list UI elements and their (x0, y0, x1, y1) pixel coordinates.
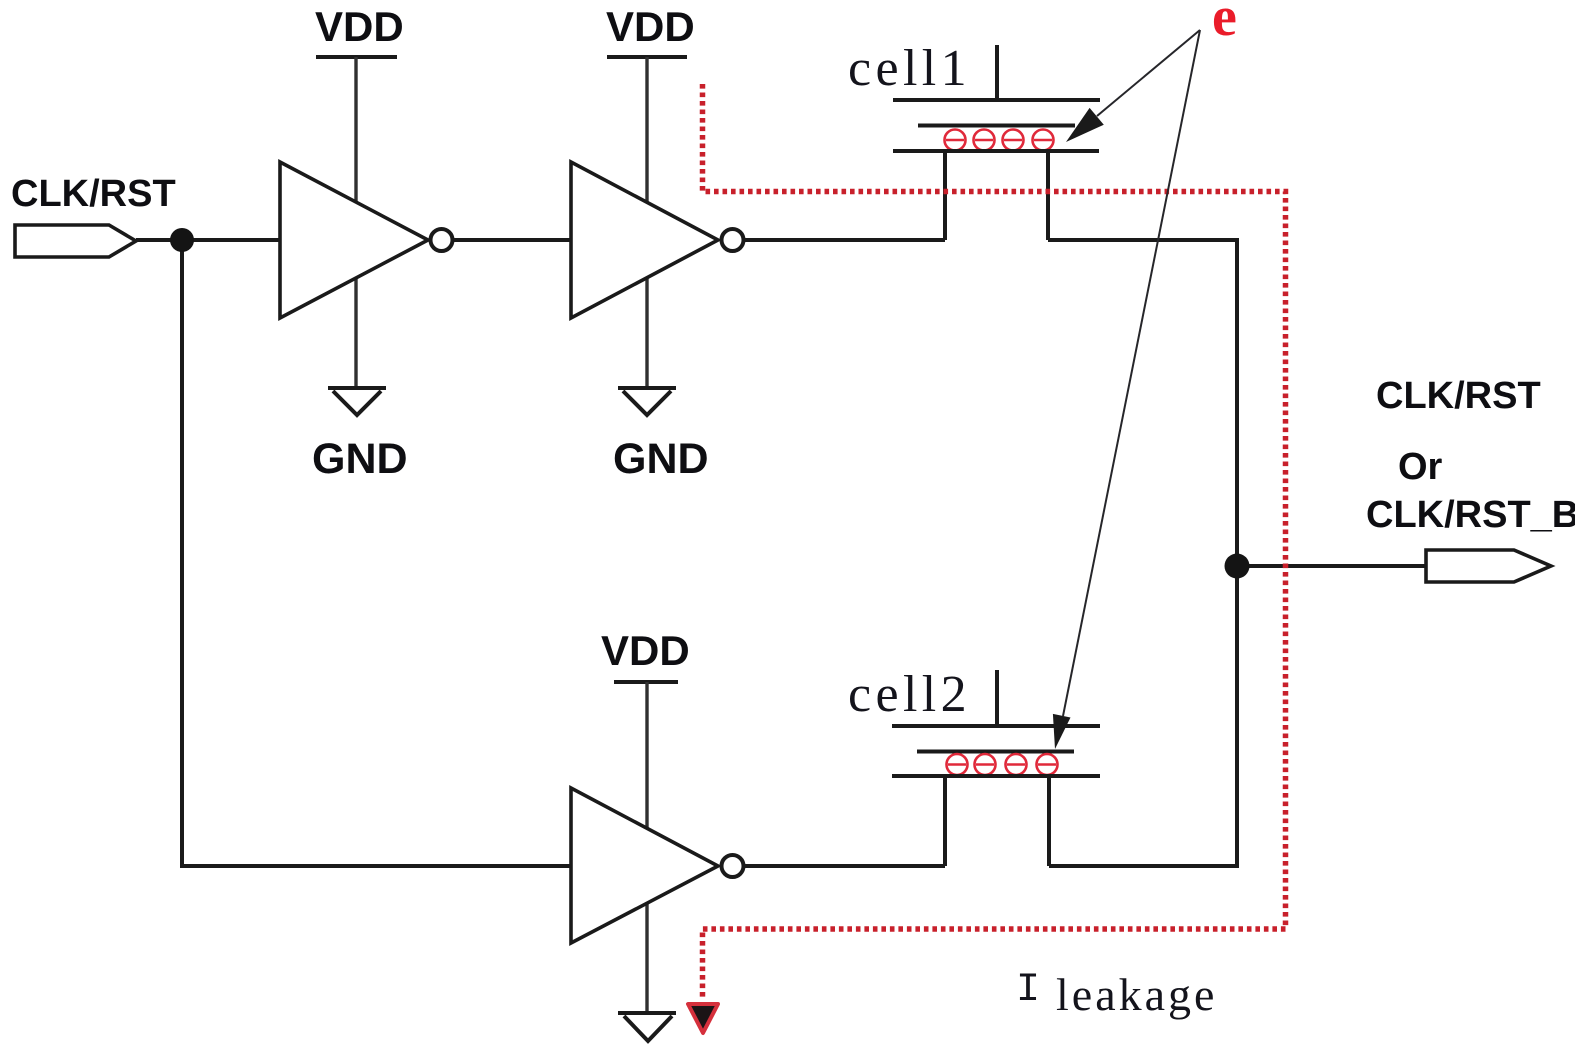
svg-text:e: e (1212, 0, 1237, 48)
wire node B to output port (1237, 564, 1427, 568)
svg-text:CLK/RST: CLK/RST (1376, 375, 1541, 417)
wire U2 output to cell1 source (743, 238, 945, 242)
ground G3 (618, 1013, 676, 1041)
wire bottom branch to inverter U3 (180, 864, 573, 868)
bubble U1 (431, 229, 453, 251)
wire U1 output to U2 input (452, 238, 573, 242)
svg-text:cell2: cell2 (848, 666, 971, 723)
node A junction dot (170, 228, 194, 252)
wire cell1 drain to right bus (1048, 238, 1239, 242)
svg-text:CLK/RST: CLK/RST (11, 173, 176, 215)
wire node A vertical to bottom branch (180, 240, 184, 868)
svg-text:cell1: cell1 (848, 40, 971, 97)
bubble U3 (722, 855, 744, 877)
cell2 floating gate plate (917, 750, 1074, 754)
ground G2 (618, 388, 676, 415)
wire input to inverter U1 (136, 238, 282, 242)
svg-text:Or: Or (1398, 446, 1443, 488)
VDD rail U1 (316, 55, 397, 59)
inverter U3 (571, 788, 718, 943)
cell2 drain stub (1047, 776, 1051, 866)
cell2 control gate plate (892, 724, 1100, 728)
cell1 drain stub (1046, 151, 1050, 240)
wire cell2 drain to right bus (1049, 864, 1239, 868)
cell2 gate lead (995, 670, 999, 726)
svg-text:VDD: VDD (315, 3, 404, 50)
cell1 control gate plate (893, 98, 1100, 102)
output port CLK/RST or CLK/RST_B (1426, 550, 1551, 582)
inverter U2 (571, 162, 718, 318)
electron arrow to cell1 (1097, 30, 1200, 116)
bubble U2 (722, 229, 744, 251)
cell1 trapped electrons (945, 130, 1054, 151)
electron arrow to cell2 (1063, 30, 1200, 716)
wire VDD3 vertical through inverter U3 (645, 682, 648, 1012)
svg-text:VDD: VDD (606, 3, 695, 50)
svg-text:GND: GND (312, 435, 408, 483)
inverter U1 (280, 162, 428, 318)
VDD rail U3 (614, 680, 678, 684)
svg-text:GND: GND (613, 435, 709, 483)
cell1 channel plate (893, 149, 1099, 153)
svg-text:CLK/RST_B: CLK/RST_B (1366, 494, 1575, 536)
cell2 channel plate (892, 774, 1100, 778)
svg-text:leakage: leakage (1056, 969, 1217, 1020)
ground G1 (328, 388, 386, 415)
wire VDD1 vertical through inverter U1 (354, 57, 357, 387)
svg-text:I: I (1016, 968, 1040, 1013)
cell1 gate lead (995, 45, 999, 100)
leakage arrowhead (688, 1004, 718, 1033)
wire U3 output to cell2 source (743, 864, 945, 868)
leakage current path (red dotted) (703, 84, 1286, 999)
node B junction dot (1225, 554, 1250, 579)
cell2 trapped electrons (947, 754, 1058, 775)
cell1 source stub (943, 151, 947, 240)
VDD rail U2 (607, 55, 687, 59)
input port CLK/RST (15, 225, 136, 257)
cell2 source stub (943, 776, 947, 866)
svg-text:VDD: VDD (601, 627, 690, 674)
wire VDD2 vertical through inverter U2 (645, 57, 648, 387)
cell1 floating gate plate (918, 124, 1075, 128)
wire right bus vertical (1235, 238, 1239, 868)
